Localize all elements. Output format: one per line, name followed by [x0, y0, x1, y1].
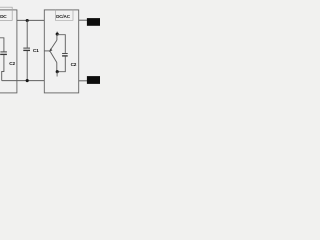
- wire left-box capacitor top bar: [0, 38, 4, 52]
- terminal block bottom (clipped): [87, 76, 101, 84]
- DC/AC label box: [55, 10, 73, 20]
- transistor Q1 emitter diagonal: [50, 51, 57, 62]
- transistor Q1 collector wire: [56, 35, 58, 40]
- node inverter top dot stub: [56, 32, 58, 34]
- wire top rail between blocks: [17, 19, 44, 21]
- wire C1 lower lead: [26, 51, 28, 81]
- wire left-box capacitor lower lead with jog: [2, 55, 4, 81]
- capacitor C2 (left) bottom plate: [0, 53, 7, 55]
- svg-text:C2: C2: [9, 61, 15, 66]
- wire capacitor C2 (right) lower lead to bottom dot: [57, 56, 65, 71]
- capacitor C2 (right) top plate: [62, 53, 68, 55]
- svg-text:DC/AC: DC/AC: [56, 14, 71, 19]
- background: [0, 0, 100, 100]
- terminal block top (clipped): [87, 18, 101, 26]
- wire bottom dot stub: [56, 72, 58, 77]
- transistor Q1 emitter wire: [56, 63, 58, 72]
- wire top dot to capacitor C2 (right): [57, 35, 65, 53]
- wire bottom rail between blocks: [2, 80, 45, 82]
- transistor Q1 collector diagonal: [50, 40, 57, 50]
- wire AC output bottom: [79, 80, 88, 82]
- node top junction dot: [26, 19, 29, 22]
- svg-text:C1: C1: [33, 48, 39, 53]
- DC/DC converter block box (clipped at left): [0, 10, 17, 93]
- DC/AC inverter block box: [44, 10, 78, 93]
- svg-text:C2: C2: [71, 62, 77, 67]
- capacitor C2 (left) top plate: [0, 51, 7, 53]
- DC/DC label box (clipped at left): [0, 7, 12, 20]
- transistor Q1 base lead: [44, 50, 50, 52]
- node inverter top junction dot: [56, 33, 59, 36]
- wire C1 upper lead: [26, 21, 28, 48]
- svg-text:DC: DC: [0, 14, 7, 20]
- node bottom junction dot: [26, 79, 29, 82]
- capacitor C1 top plate: [23, 47, 30, 49]
- wire AC output top: [79, 19, 88, 21]
- node inverter bottom junction dot: [56, 70, 59, 73]
- capacitor C2 (right) bottom plate: [62, 55, 68, 57]
- capacitor C1 bottom plate: [23, 49, 30, 51]
- transistor Q1 arrowhead: [49, 48, 53, 52]
